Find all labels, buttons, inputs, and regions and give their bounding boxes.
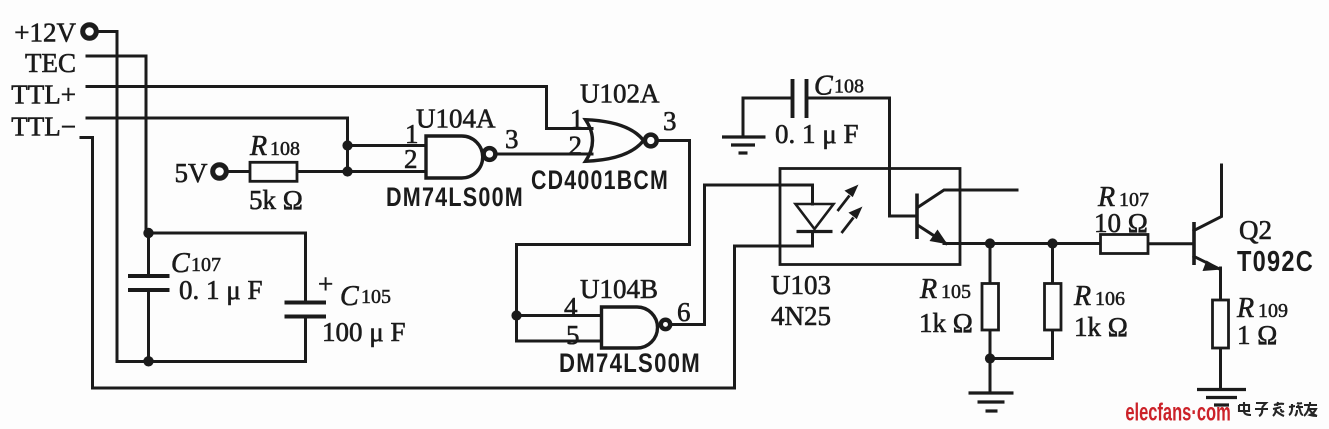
svg-text:100 μ F: 100 μ F <box>322 317 406 347</box>
svg-text:TEC: TEC <box>25 48 76 78</box>
svg-text:2: 2 <box>404 144 418 174</box>
svg-text:U103: U103 <box>771 270 831 300</box>
svg-text:2: 2 <box>569 131 583 161</box>
svg-text:109: 109 <box>1258 300 1288 322</box>
svg-text:R: R <box>249 131 267 162</box>
svg-text:5: 5 <box>566 320 580 350</box>
svg-text:U102A: U102A <box>580 79 660 109</box>
svg-text:3: 3 <box>505 124 519 154</box>
svg-text:DM74LS00M: DM74LS00M <box>559 348 701 378</box>
svg-text:T092C: T092C <box>1237 246 1314 278</box>
svg-text:5k Ω: 5k Ω <box>249 185 303 215</box>
svg-text:elecfans·com: elecfans·com <box>1125 399 1230 426</box>
svg-text:1k Ω: 1k Ω <box>1074 312 1128 342</box>
svg-text:C: C <box>340 281 359 312</box>
svg-text:108: 108 <box>834 76 864 98</box>
svg-text:TTL−: TTL− <box>11 112 76 142</box>
svg-text:C: C <box>814 71 833 102</box>
svg-text:4N25: 4N25 <box>771 301 831 331</box>
svg-text:105: 105 <box>361 286 391 308</box>
svg-text:U104B: U104B <box>580 274 658 304</box>
svg-text:TTL+: TTL+ <box>11 80 76 110</box>
svg-text:0. 1 μ F: 0. 1 μ F <box>775 119 859 149</box>
svg-text:106: 106 <box>1095 288 1125 310</box>
svg-text:1: 1 <box>570 104 584 134</box>
svg-text:U104A: U104A <box>416 104 496 134</box>
svg-text:5V: 5V <box>175 158 209 188</box>
svg-text:1 Ω: 1 Ω <box>1237 320 1277 350</box>
svg-text:108: 108 <box>270 138 300 160</box>
svg-text:1k Ω: 1k Ω <box>919 308 973 338</box>
svg-text:CD4001BCM: CD4001BCM <box>531 165 669 195</box>
svg-text:10 Ω: 10 Ω <box>1094 208 1148 238</box>
svg-text:105: 105 <box>941 281 971 303</box>
svg-text:R: R <box>1073 281 1091 312</box>
svg-text:+12V: +12V <box>14 18 76 48</box>
svg-text:DM74LS00M: DM74LS00M <box>386 182 524 212</box>
svg-text:3: 3 <box>663 106 677 136</box>
svg-text:107: 107 <box>191 254 221 276</box>
svg-text:Q2: Q2 <box>1239 215 1272 245</box>
svg-text:4: 4 <box>564 292 578 322</box>
svg-text:+: + <box>318 269 333 299</box>
svg-text:6: 6 <box>677 297 691 327</box>
svg-text:0. 1 μ F: 0. 1 μ F <box>179 275 263 305</box>
svg-text:R: R <box>919 274 937 305</box>
